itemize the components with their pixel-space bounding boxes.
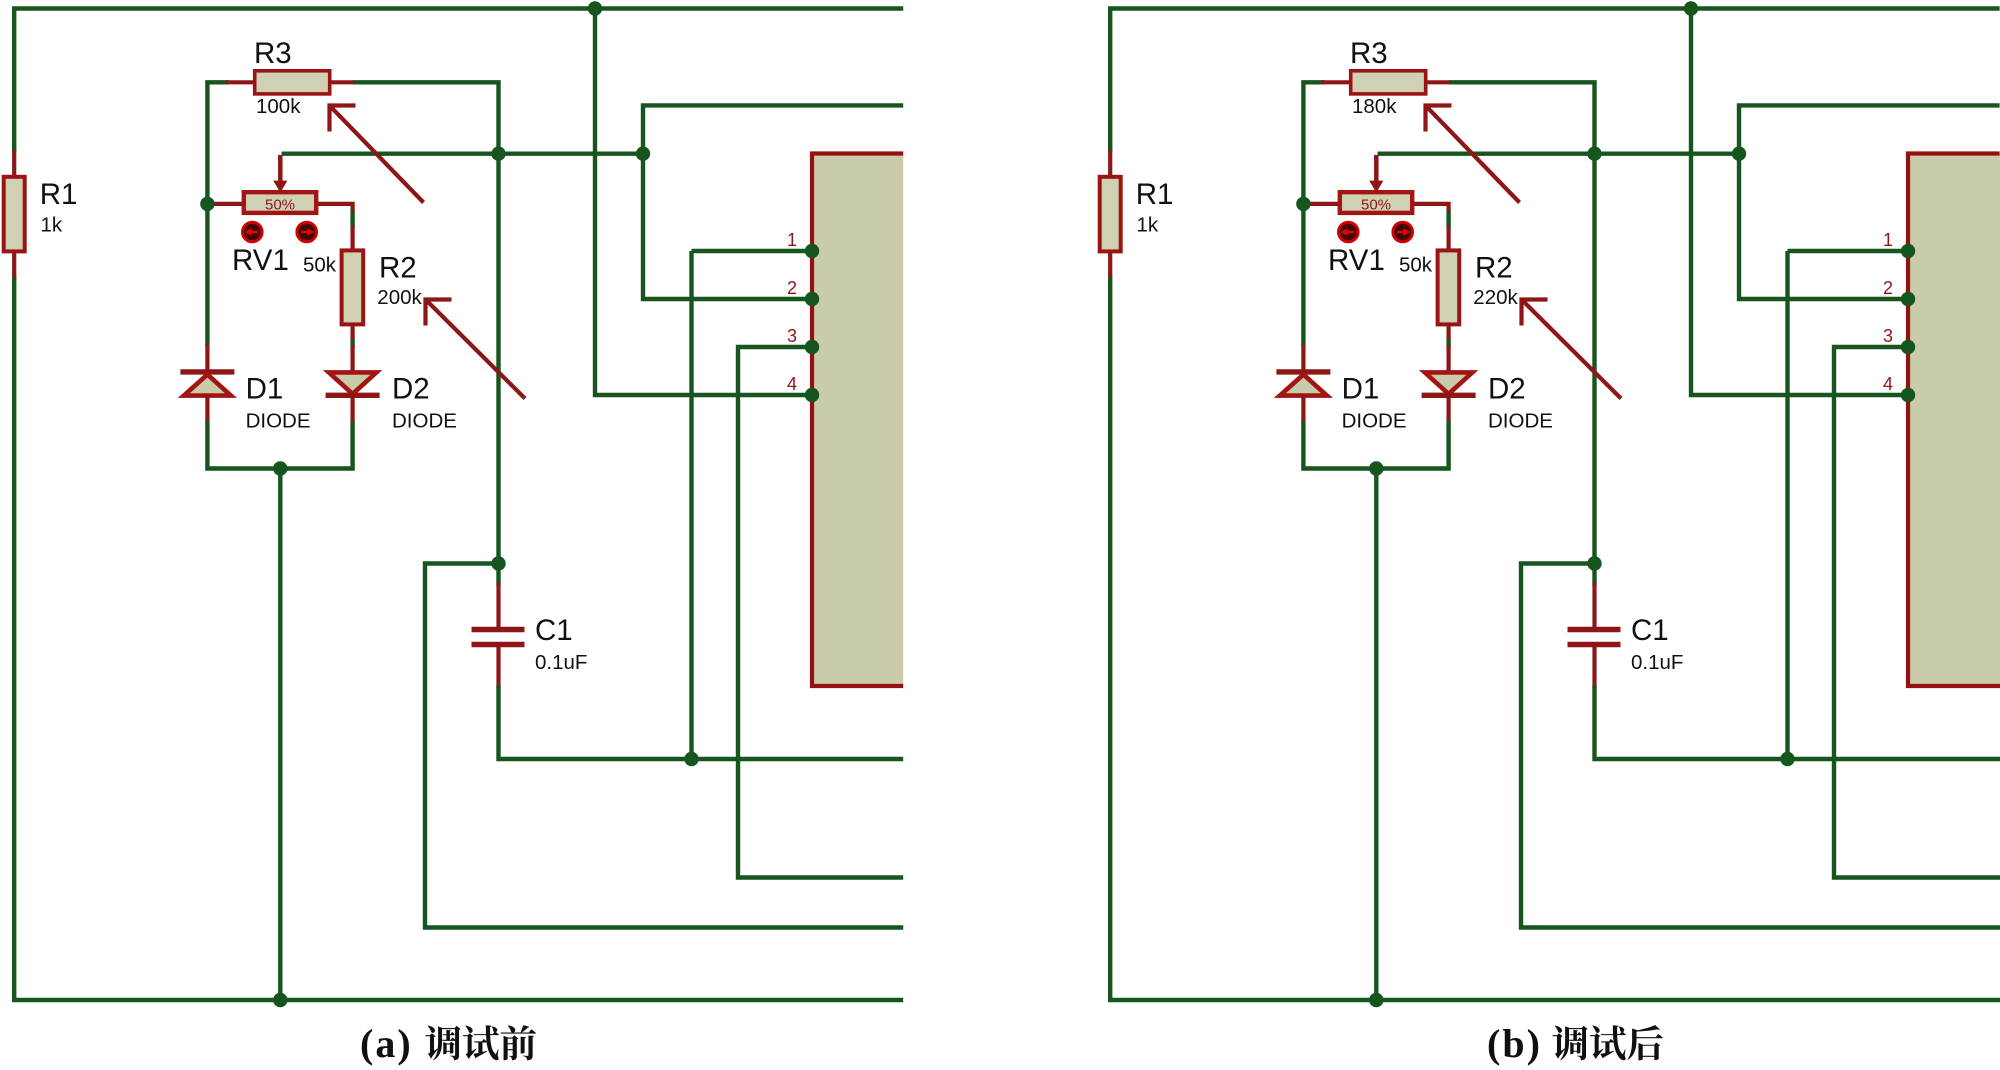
junction: wiper end xyxy=(636,147,650,161)
svg-text:R3: R3 xyxy=(1350,37,1388,70)
svg-text:R1: R1 xyxy=(40,178,78,211)
svg-text:R2: R2 xyxy=(379,252,417,285)
svg-text:DIODE: DIODE xyxy=(1342,410,1407,433)
svg-text:50k: 50k xyxy=(303,254,337,277)
resistor R1 xyxy=(4,177,25,252)
wire: diode junction down to ground bus xyxy=(1374,469,1378,1001)
junction: pin1 column / C1 bottom net xyxy=(1780,752,1794,766)
RV1 thumbwheel right (increase) xyxy=(297,222,317,242)
diode D1 pin top xyxy=(1301,344,1305,372)
wire: R3 left lead down to RV1/D1 branch xyxy=(207,82,229,346)
svg-text:0.1uF: 0.1uF xyxy=(1631,651,1683,674)
IC U1 body (cropped at image edge) xyxy=(812,154,906,687)
svg-text:DIODE: DIODE xyxy=(392,410,457,433)
wire: R3 right lead to C1 column xyxy=(353,82,499,565)
resistor R1 pin bottom xyxy=(1108,250,1112,277)
diode D2 pin bottom xyxy=(351,395,355,423)
junction: wiper x C1 column xyxy=(491,147,505,161)
svg-text:50%: 50% xyxy=(1361,197,1391,214)
junction: pin1 column / C1 bottom net xyxy=(684,752,698,766)
diode D1 pin bottom xyxy=(205,396,209,423)
RV1 wiper arrow xyxy=(273,155,287,193)
pin dot 4 xyxy=(1901,388,1915,402)
wire: C1 bottom net to right xyxy=(499,685,907,759)
pin dot 1 xyxy=(1901,244,1915,258)
resistor R2 pin top xyxy=(351,226,355,252)
diode D2 xyxy=(329,372,377,394)
junction: ground bus tee xyxy=(273,993,287,1007)
wire: C1 top lead xyxy=(1592,564,1596,586)
potentiometer RV1 pin left xyxy=(210,202,245,206)
junction: diode bottom tee xyxy=(1369,461,1383,475)
annotation arrow to R2 xyxy=(426,300,526,399)
resistor R1 pin top xyxy=(1108,150,1112,178)
circuit (a) before adjustment xyxy=(4,1,906,1007)
wire: R3 left lead down to RV1/D1 branch xyxy=(1303,82,1325,346)
wire: pin2 column from top-right wire down to pin 2 xyxy=(643,105,904,299)
resistor R3 pin right xyxy=(329,80,356,84)
resistor R3 xyxy=(1351,71,1426,94)
wire: RV1 right to R2 top xyxy=(350,211,354,228)
svg-text:1k: 1k xyxy=(1137,214,1159,237)
resistor R2 xyxy=(1438,250,1460,324)
svg-text:50%: 50% xyxy=(265,197,295,214)
wire: R3 right lead to C1 column xyxy=(1449,82,1595,565)
svg-text:100k: 100k xyxy=(256,95,301,118)
resistor R3 pin right xyxy=(1425,80,1452,84)
svg-text:RV1: RV1 xyxy=(232,244,289,277)
circuit (b) after adjustment xyxy=(1100,1,2000,1007)
resistor R2 pin top xyxy=(1446,226,1450,252)
wire: diode bottom loop xyxy=(1303,421,1448,469)
diode D2 anode bar xyxy=(326,393,380,398)
junction: diode bottom tee xyxy=(273,461,287,475)
wire: R2 bottom to D2 xyxy=(1446,339,1450,347)
svg-text:200k: 200k xyxy=(377,286,422,309)
RV1 thumbwheel left (decrease) xyxy=(243,222,263,242)
pin dot 2 xyxy=(805,292,819,306)
junction: ground bus tee xyxy=(1369,993,1383,1007)
svg-text:C1: C1 xyxy=(1631,614,1669,647)
svg-text:DIODE: DIODE xyxy=(1488,410,1553,433)
svg-text:1: 1 xyxy=(1883,230,1893,250)
annotation arrow to R2 xyxy=(1522,300,1622,399)
svg-text:1: 1 xyxy=(787,230,797,250)
svg-text:3: 3 xyxy=(787,326,797,346)
pin dot 3 xyxy=(1901,340,1915,354)
diode D1 xyxy=(1280,375,1327,396)
wire: top power bus and left vertical rail xyxy=(14,9,903,153)
wire: pin 1 column down to C1 net xyxy=(1785,251,1789,759)
diode D2 pin bottom xyxy=(1446,395,1450,423)
potentiometer RV1 body xyxy=(1340,192,1412,213)
resistor R3 xyxy=(255,71,330,94)
IC U1 body (cropped at image edge) xyxy=(1908,154,2000,687)
RV1 wiper arrow xyxy=(1369,155,1383,193)
wire: pin 3 net xyxy=(1834,347,2000,878)
wire: R2 bottom to D2 xyxy=(350,339,354,347)
RV1 thumbwheel right (increase) xyxy=(1393,222,1413,242)
svg-text:R2: R2 xyxy=(1475,252,1513,285)
resistor R3 pin left xyxy=(225,80,256,84)
junction: top bus / pin4 column xyxy=(1684,1,1698,15)
wire: pin 1 horizontal xyxy=(1788,249,1909,253)
svg-text:4: 4 xyxy=(1883,374,1893,394)
wire: pin 3 net xyxy=(738,347,906,878)
caption (b) 调试后 xyxy=(1487,1021,1663,1066)
annotation arrow to R3 xyxy=(330,106,424,203)
diode D1 cathode bar xyxy=(1276,369,1330,374)
svg-text:R1: R1 xyxy=(1136,178,1174,211)
svg-text:0.1uF: 0.1uF xyxy=(535,651,587,674)
junction: C1 top tee xyxy=(1587,556,1601,570)
junction: RV1 left xyxy=(1296,197,1310,211)
resistor R3 pin left xyxy=(1321,80,1352,84)
svg-text:220k: 220k xyxy=(1473,286,1518,309)
wire: pin 1 column down to C1 net xyxy=(689,251,693,759)
svg-text:R3: R3 xyxy=(254,37,292,70)
resistor R2 pin bottom xyxy=(1446,323,1450,341)
pin dot 1 xyxy=(805,244,819,258)
junction: wiper x C1 column xyxy=(1587,147,1601,161)
diode D2 anode bar xyxy=(1422,393,1476,398)
wire: left rail below R1 and bottom ground bus xyxy=(1110,275,2000,1000)
diode D1 cathode bar xyxy=(180,369,234,374)
capacitor C1 lead top xyxy=(1592,583,1596,630)
wire: left rail below R1 and bottom ground bus xyxy=(14,275,906,1000)
wire: pin 4 net from top bus xyxy=(1691,9,1908,396)
svg-text:(b): (b) xyxy=(1487,1021,1542,1066)
wire: C1 top net going left and down xyxy=(1521,564,2000,928)
svg-text:D1: D1 xyxy=(246,372,284,405)
svg-text:(a): (a) xyxy=(360,1021,413,1066)
potentiometer RV1 body xyxy=(244,192,316,213)
junction: RV1 left xyxy=(200,197,214,211)
annotation arrow to R3 xyxy=(1426,106,1520,203)
potentiometer RV1 pin left xyxy=(1306,202,1341,206)
svg-text:DIODE: DIODE xyxy=(246,410,311,433)
resistor R1 xyxy=(1100,177,1121,252)
svg-text:C1: C1 xyxy=(535,614,573,647)
diode D2 pin top xyxy=(351,345,355,372)
wire: pin 4 net from top bus xyxy=(595,9,812,396)
wire: RV1 wiper net to pin2 column xyxy=(282,151,644,155)
wire: diode junction down to ground bus xyxy=(278,469,282,1001)
pin dot 4 xyxy=(805,388,819,402)
svg-text:D2: D2 xyxy=(392,372,430,405)
svg-text:2: 2 xyxy=(1883,278,1893,298)
caption (a) 调试前 xyxy=(360,1021,536,1066)
svg-text:2: 2 xyxy=(787,278,797,298)
diode D1 pin top xyxy=(205,344,209,372)
capacitor C1 plates xyxy=(472,630,525,645)
wire: C1 top lead xyxy=(496,564,500,586)
wire: RV1 wiper net to pin2 column xyxy=(1378,151,1740,155)
junction: C1 top tee xyxy=(491,556,505,570)
capacitor C1 lead bottom xyxy=(1592,644,1596,688)
resistor R2 pin bottom xyxy=(351,323,355,341)
potentiometer RV1 pin right xyxy=(315,204,353,213)
capacitor C1 lead top xyxy=(496,583,500,630)
resistor R1 pin bottom xyxy=(12,250,16,277)
capacitor C1 plates xyxy=(1568,630,1621,645)
capacitor C1 lead bottom xyxy=(496,644,500,688)
svg-text:D2: D2 xyxy=(1488,372,1526,405)
svg-text:D1: D1 xyxy=(1342,372,1380,405)
diode D2 xyxy=(1425,372,1473,394)
svg-text:4: 4 xyxy=(787,374,797,394)
resistor R1 pin top xyxy=(12,150,16,178)
diode D1 pin bottom xyxy=(1301,396,1305,423)
RV1 thumbwheel left (decrease) xyxy=(1339,222,1359,242)
wire: C1 top net going left and down xyxy=(425,564,906,928)
svg-text:RV1: RV1 xyxy=(1328,244,1385,277)
resistor R2 xyxy=(342,250,364,324)
potentiometer RV1 pin right xyxy=(1411,204,1449,213)
svg-text:180k: 180k xyxy=(1352,95,1397,118)
svg-text:3: 3 xyxy=(1883,326,1893,346)
diode D2 pin top xyxy=(1446,345,1450,372)
wire: RV1 right to R2 top xyxy=(1446,211,1450,228)
pin dot 3 xyxy=(805,340,819,354)
wire: C1 bottom net to right xyxy=(1595,685,2000,759)
wire: diode bottom loop xyxy=(207,421,352,469)
junction: wiper end xyxy=(1732,147,1746,161)
svg-text:1k: 1k xyxy=(41,214,63,237)
pin dot 2 xyxy=(1901,292,1915,306)
wire: top power bus and left vertical rail xyxy=(1110,9,1999,153)
wire: pin 1 horizontal xyxy=(692,249,813,253)
wire: pin2 column from top-right wire down to pin 2 xyxy=(1739,105,2000,299)
svg-text:50k: 50k xyxy=(1399,254,1433,277)
diode D1 xyxy=(184,375,231,396)
junction: top bus / pin4 column xyxy=(588,1,602,15)
